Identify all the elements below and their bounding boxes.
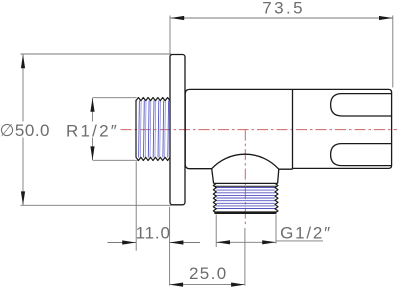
svg-text:∅50.0: ∅50.0 (0, 121, 50, 140)
svg-text:25.0: 25.0 (189, 264, 228, 283)
svg-text:73.5: 73.5 (262, 0, 305, 17)
svg-text:G1/2″: G1/2″ (280, 224, 332, 243)
svg-text:11.0: 11.0 (136, 223, 171, 242)
svg-text:R1/2″: R1/2″ (66, 121, 119, 140)
